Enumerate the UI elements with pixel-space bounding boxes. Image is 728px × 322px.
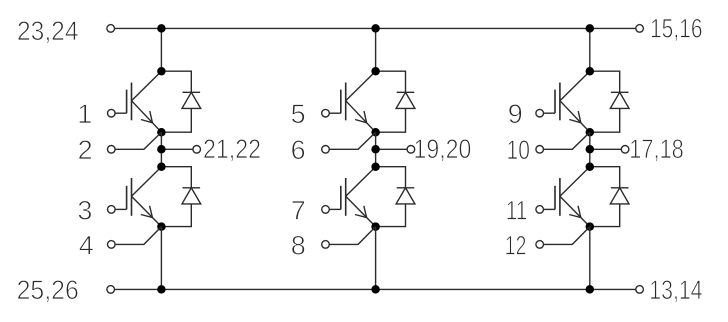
collector node Q4	[371, 162, 380, 171]
gate lead pin 9	[544, 112, 556, 114]
phase output wire 19,20	[376, 148, 408, 150]
DC+ bus wire (pins 23,24 to 15,16)	[115, 27, 636, 29]
wire emitter Q6 to DC- bus	[589, 227, 591, 290]
junction node on DC+ bus leg 1	[157, 24, 166, 33]
terminal pin 7 (gate Q4)	[322, 206, 330, 214]
collector node Q5	[586, 67, 595, 76]
phase node leg 1	[157, 145, 166, 154]
svg-text:25,26: 25,26	[17, 275, 79, 305]
terminal pin 2 (aux emitter Q1)	[108, 146, 116, 154]
transistor Q1 (pin 1 gate)	[127, 71, 162, 132]
DC- bus wire (pins 25,26 to 13,14)	[115, 288, 636, 290]
phase output wire 21,22	[161, 148, 193, 150]
diode D2 (freewheel)	[161, 167, 200, 227]
svg-text:9: 9	[508, 99, 523, 129]
svg-text:10: 10	[507, 135, 530, 165]
aux emitter wire pin 10	[544, 132, 590, 149]
svg-text:19,20: 19,20	[414, 134, 472, 164]
transistor Q6 (pin 11 gate)	[555, 167, 590, 227]
svg-text:15,16: 15,16	[650, 13, 703, 43]
svg-text:4: 4	[79, 230, 94, 260]
junction node on DC- bus leg 1	[157, 285, 166, 294]
emitter node Q5	[586, 128, 595, 137]
collector node Q1	[157, 67, 166, 76]
gate lead pin 7	[329, 208, 341, 210]
terminal pin 9 (gate Q5)	[536, 109, 544, 117]
terminal pin 6 (aux emitter Q3)	[322, 146, 330, 154]
wire emitter Q4 to DC- bus	[375, 227, 377, 290]
collector node Q3	[371, 67, 380, 76]
terminal 23,24	[107, 25, 115, 33]
wire emitter Q1 to collector Q2	[160, 132, 162, 167]
gate lead pin 3	[115, 208, 127, 210]
diode D1 (freewheel)	[161, 71, 200, 132]
svg-text:12: 12	[505, 230, 527, 260]
aux emitter wire pin 8	[329, 227, 375, 245]
phase node leg 3	[586, 145, 595, 154]
aux emitter wire pin 2	[115, 132, 161, 149]
phase output wire 17,18	[590, 148, 622, 150]
collector node Q2	[157, 162, 166, 171]
gate lead pin 11	[544, 208, 556, 210]
junction node on DC- bus leg 3	[586, 285, 595, 294]
svg-text:8: 8	[291, 230, 306, 260]
wire emitter Q3 to collector Q4	[375, 132, 377, 167]
emitter node Q3	[371, 128, 380, 137]
terminal 21,22 (AC output)	[193, 146, 201, 154]
terminal pin 1 (gate Q1)	[108, 109, 116, 117]
terminal pin 11 (gate Q6)	[536, 206, 544, 214]
junction node on DC+ bus leg 3	[586, 24, 595, 33]
wire DC+ to collector Q1	[160, 28, 162, 71]
aux emitter wire pin 4	[115, 227, 161, 245]
diode D4 (freewheel)	[376, 167, 415, 227]
transistor Q4 (pin 7 gate)	[341, 167, 376, 227]
svg-text:21,22: 21,22	[203, 134, 261, 164]
terminal pin 12 (aux emitter Q6)	[536, 241, 544, 249]
terminal 25,26	[107, 286, 115, 294]
emitter node Q2	[157, 222, 166, 231]
terminal pin 3 (gate Q2)	[108, 206, 116, 214]
svg-text:17,18: 17,18	[629, 134, 684, 164]
svg-text:5: 5	[291, 99, 306, 129]
terminal 17,18 (AC output)	[621, 146, 629, 154]
emitter node Q1	[157, 128, 166, 137]
terminal 13,14	[636, 286, 644, 294]
svg-text:1: 1	[77, 99, 92, 129]
terminal pin 5 (gate Q3)	[322, 109, 330, 117]
collector node Q6	[586, 162, 595, 171]
junction node on DC+ bus leg 2	[371, 24, 380, 33]
svg-text:7: 7	[291, 195, 306, 225]
wire DC+ to collector Q5	[589, 28, 591, 71]
svg-text:6: 6	[291, 135, 306, 165]
transistor Q3 (pin 5 gate)	[341, 71, 376, 132]
junction node on DC- bus leg 2	[371, 285, 380, 294]
transistor Q5 (pin 9 gate)	[555, 71, 590, 132]
diode D3 (freewheel)	[376, 71, 415, 132]
emitter node Q4	[371, 222, 380, 231]
diode D6 (freewheel)	[590, 167, 629, 227]
terminal 19,20 (AC output)	[407, 146, 415, 154]
wire emitter Q2 to DC- bus	[160, 227, 162, 290]
svg-text:13,14: 13,14	[649, 275, 702, 305]
svg-text:11: 11	[506, 195, 528, 225]
wire emitter Q5 to collector Q6	[589, 132, 591, 167]
terminal pin 4 (aux emitter Q2)	[108, 241, 116, 249]
gate lead pin 1	[115, 112, 127, 114]
emitter node Q6	[586, 222, 595, 231]
phase node leg 2	[371, 145, 380, 154]
wire DC+ to collector Q3	[375, 28, 377, 71]
svg-text:3: 3	[77, 195, 92, 225]
transistor Q2 (pin 3 gate)	[127, 167, 162, 227]
aux emitter wire pin 6	[329, 132, 375, 149]
svg-text:23,24: 23,24	[17, 16, 79, 46]
terminal 15,16	[636, 25, 644, 33]
terminal pin 10 (aux emitter Q5)	[536, 146, 544, 154]
terminal pin 8 (aux emitter Q4)	[322, 241, 330, 249]
gate lead pin 5	[329, 112, 341, 114]
aux emitter wire pin 12	[544, 227, 590, 245]
svg-text:2: 2	[78, 135, 93, 165]
diode D5 (freewheel)	[590, 71, 629, 132]
